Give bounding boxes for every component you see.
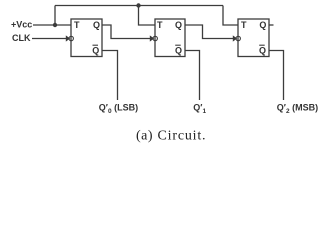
svg-text:Q: Q	[259, 45, 266, 55]
wire: FF2 Q to FF3 clock	[185, 25, 234, 39]
wire: FF1 Qbar to output Q'0	[102, 51, 118, 101]
wire: +Vcc to FF1 T	[33, 24, 71, 26]
wire: FF1 Q to FF2 clock	[102, 25, 151, 39]
wire: FF2 Qbar to output Q'1	[185, 51, 200, 101]
flip-flop U1 (T flip-flop) box	[71, 19, 102, 57]
wire: +Vcc rail top horizontal	[55, 5, 223, 7]
svg-text:Q: Q	[175, 20, 182, 30]
wire: FF3 Qbar to output Q'2	[269, 51, 284, 101]
wire: CLK to FF1 clock	[32, 38, 67, 40]
svg-text:T: T	[241, 20, 247, 30]
wire: rail drop to FF2 T	[139, 6, 156, 26]
flip-flop U3 (T flip-flop) box	[238, 19, 269, 57]
flip-flop U2 (T flip-flop) box	[155, 19, 185, 57]
svg-text:Q′1: Q′1	[193, 103, 206, 116]
svg-text:Q: Q	[259, 20, 266, 30]
svg-text:CLK: CLK	[12, 33, 31, 43]
U2 clock input arrow+bubble	[150, 35, 154, 41]
svg-text:Q′0 (LSB): Q′0 (LSB)	[99, 103, 138, 116]
U3 clock input arrow+bubble	[233, 35, 237, 41]
wire: rail drop to +Vcc line	[54, 6, 56, 26]
node: junction dot rail/+Vcc	[53, 23, 57, 27]
svg-text:T: T	[74, 20, 80, 30]
svg-text:Q′2 (MSB): Q′2 (MSB)	[277, 103, 318, 116]
wire: rail drop to FF3 T	[223, 6, 238, 26]
svg-text:T: T	[157, 20, 163, 30]
svg-text:(a)Circuit.: (a)Circuit.	[136, 129, 206, 144]
svg-text:Q: Q	[93, 20, 100, 30]
node: junction dot on rail at FF2 drop	[136, 3, 140, 7]
svg-text:Q: Q	[92, 45, 99, 55]
svg-text:Q: Q	[175, 45, 182, 55]
U1 clock input arrow+bubble	[66, 35, 70, 41]
wire: FF3 Q stub	[269, 24, 274, 26]
svg-text:+Vcc: +Vcc	[11, 20, 32, 30]
